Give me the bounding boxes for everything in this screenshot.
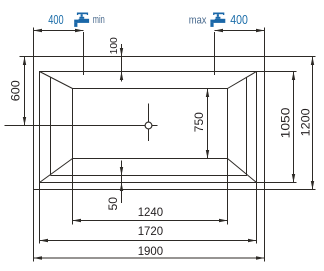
dimension 1050 rim inner height xyxy=(293,72,295,183)
svg-text:1720: 1720 xyxy=(138,224,164,238)
extension of outer left edge down for 1900 xyxy=(33,190,35,262)
dimension 600 drain from top edge xyxy=(24,57,26,126)
dimension 1720 rim inner length xyxy=(40,240,257,242)
svg-text:1900: 1900 xyxy=(138,244,164,258)
svg-text:1200: 1200 xyxy=(299,108,313,136)
dimension 1240 basin length xyxy=(73,220,228,222)
dimension 1200 overall height xyxy=(312,57,314,190)
extension of rim bottom edge to the right for 1050 xyxy=(257,182,297,184)
basin step left edge xyxy=(50,77,52,176)
svg-text:50: 50 xyxy=(106,197,120,211)
tub outer rim rectangle 1900x1200 xyxy=(34,57,265,190)
corner chamfer top-right xyxy=(228,72,257,89)
svg-text:400: 400 xyxy=(48,12,63,27)
extension of rim right edge down for 1720 xyxy=(256,183,258,244)
drain circle xyxy=(145,122,152,129)
extension of basin right edge down for 1240 xyxy=(227,159,229,225)
corner chamfer bottom-left xyxy=(40,159,73,183)
faucet icon right xyxy=(210,13,225,27)
basin step right edge xyxy=(246,77,248,176)
dimension 750 basin depth span xyxy=(207,89,209,159)
corner chamfer bottom-right xyxy=(228,159,257,183)
extension of outer right edge down for 1900 xyxy=(264,190,266,262)
dimension 400 left (tap min position) xyxy=(34,30,84,32)
basin step bottom edge xyxy=(51,175,248,177)
extension of basin left edge down for 1240 xyxy=(72,159,74,225)
extension of rim top edge to the right for 1050 xyxy=(257,71,297,73)
dimension 1900 overall length xyxy=(34,257,265,259)
extension line under left faucet xyxy=(83,32,85,75)
extension of outer bottom edge to the right for 1200 xyxy=(265,189,316,191)
extension of outer right edge up for 400 max xyxy=(264,28,266,57)
dimension 50 step to rim xyxy=(121,161,123,204)
svg-text:400: 400 xyxy=(230,12,248,27)
extension line under right faucet xyxy=(214,32,216,75)
tub basin bottom rectangle xyxy=(73,89,228,159)
tub rim inner rectangle xyxy=(40,72,257,183)
svg-text:750: 750 xyxy=(192,112,206,132)
svg-text:max: max xyxy=(189,15,207,27)
dimension 100 rim width xyxy=(121,44,123,82)
svg-text:100: 100 xyxy=(109,37,120,55)
svg-text:1050: 1050 xyxy=(279,107,293,138)
corner chamfer top-left xyxy=(40,72,73,89)
svg-text:1240: 1240 xyxy=(138,205,164,219)
extension of outer top edge to the left for 600 xyxy=(20,56,34,58)
extension of rim left edge down for 1720 xyxy=(39,183,41,244)
drain crosshair vertical xyxy=(148,104,150,142)
svg-text:min: min xyxy=(93,14,105,26)
drain crosshair horizontal xyxy=(5,125,158,127)
svg-text:600: 600 xyxy=(8,80,22,101)
extension of outer top edge to the right for 1200 xyxy=(265,56,316,58)
dimension 400 right (tap max position) xyxy=(215,30,265,32)
extension of outer left edge up for 400 min xyxy=(33,28,35,57)
faucet icon left xyxy=(74,13,89,27)
